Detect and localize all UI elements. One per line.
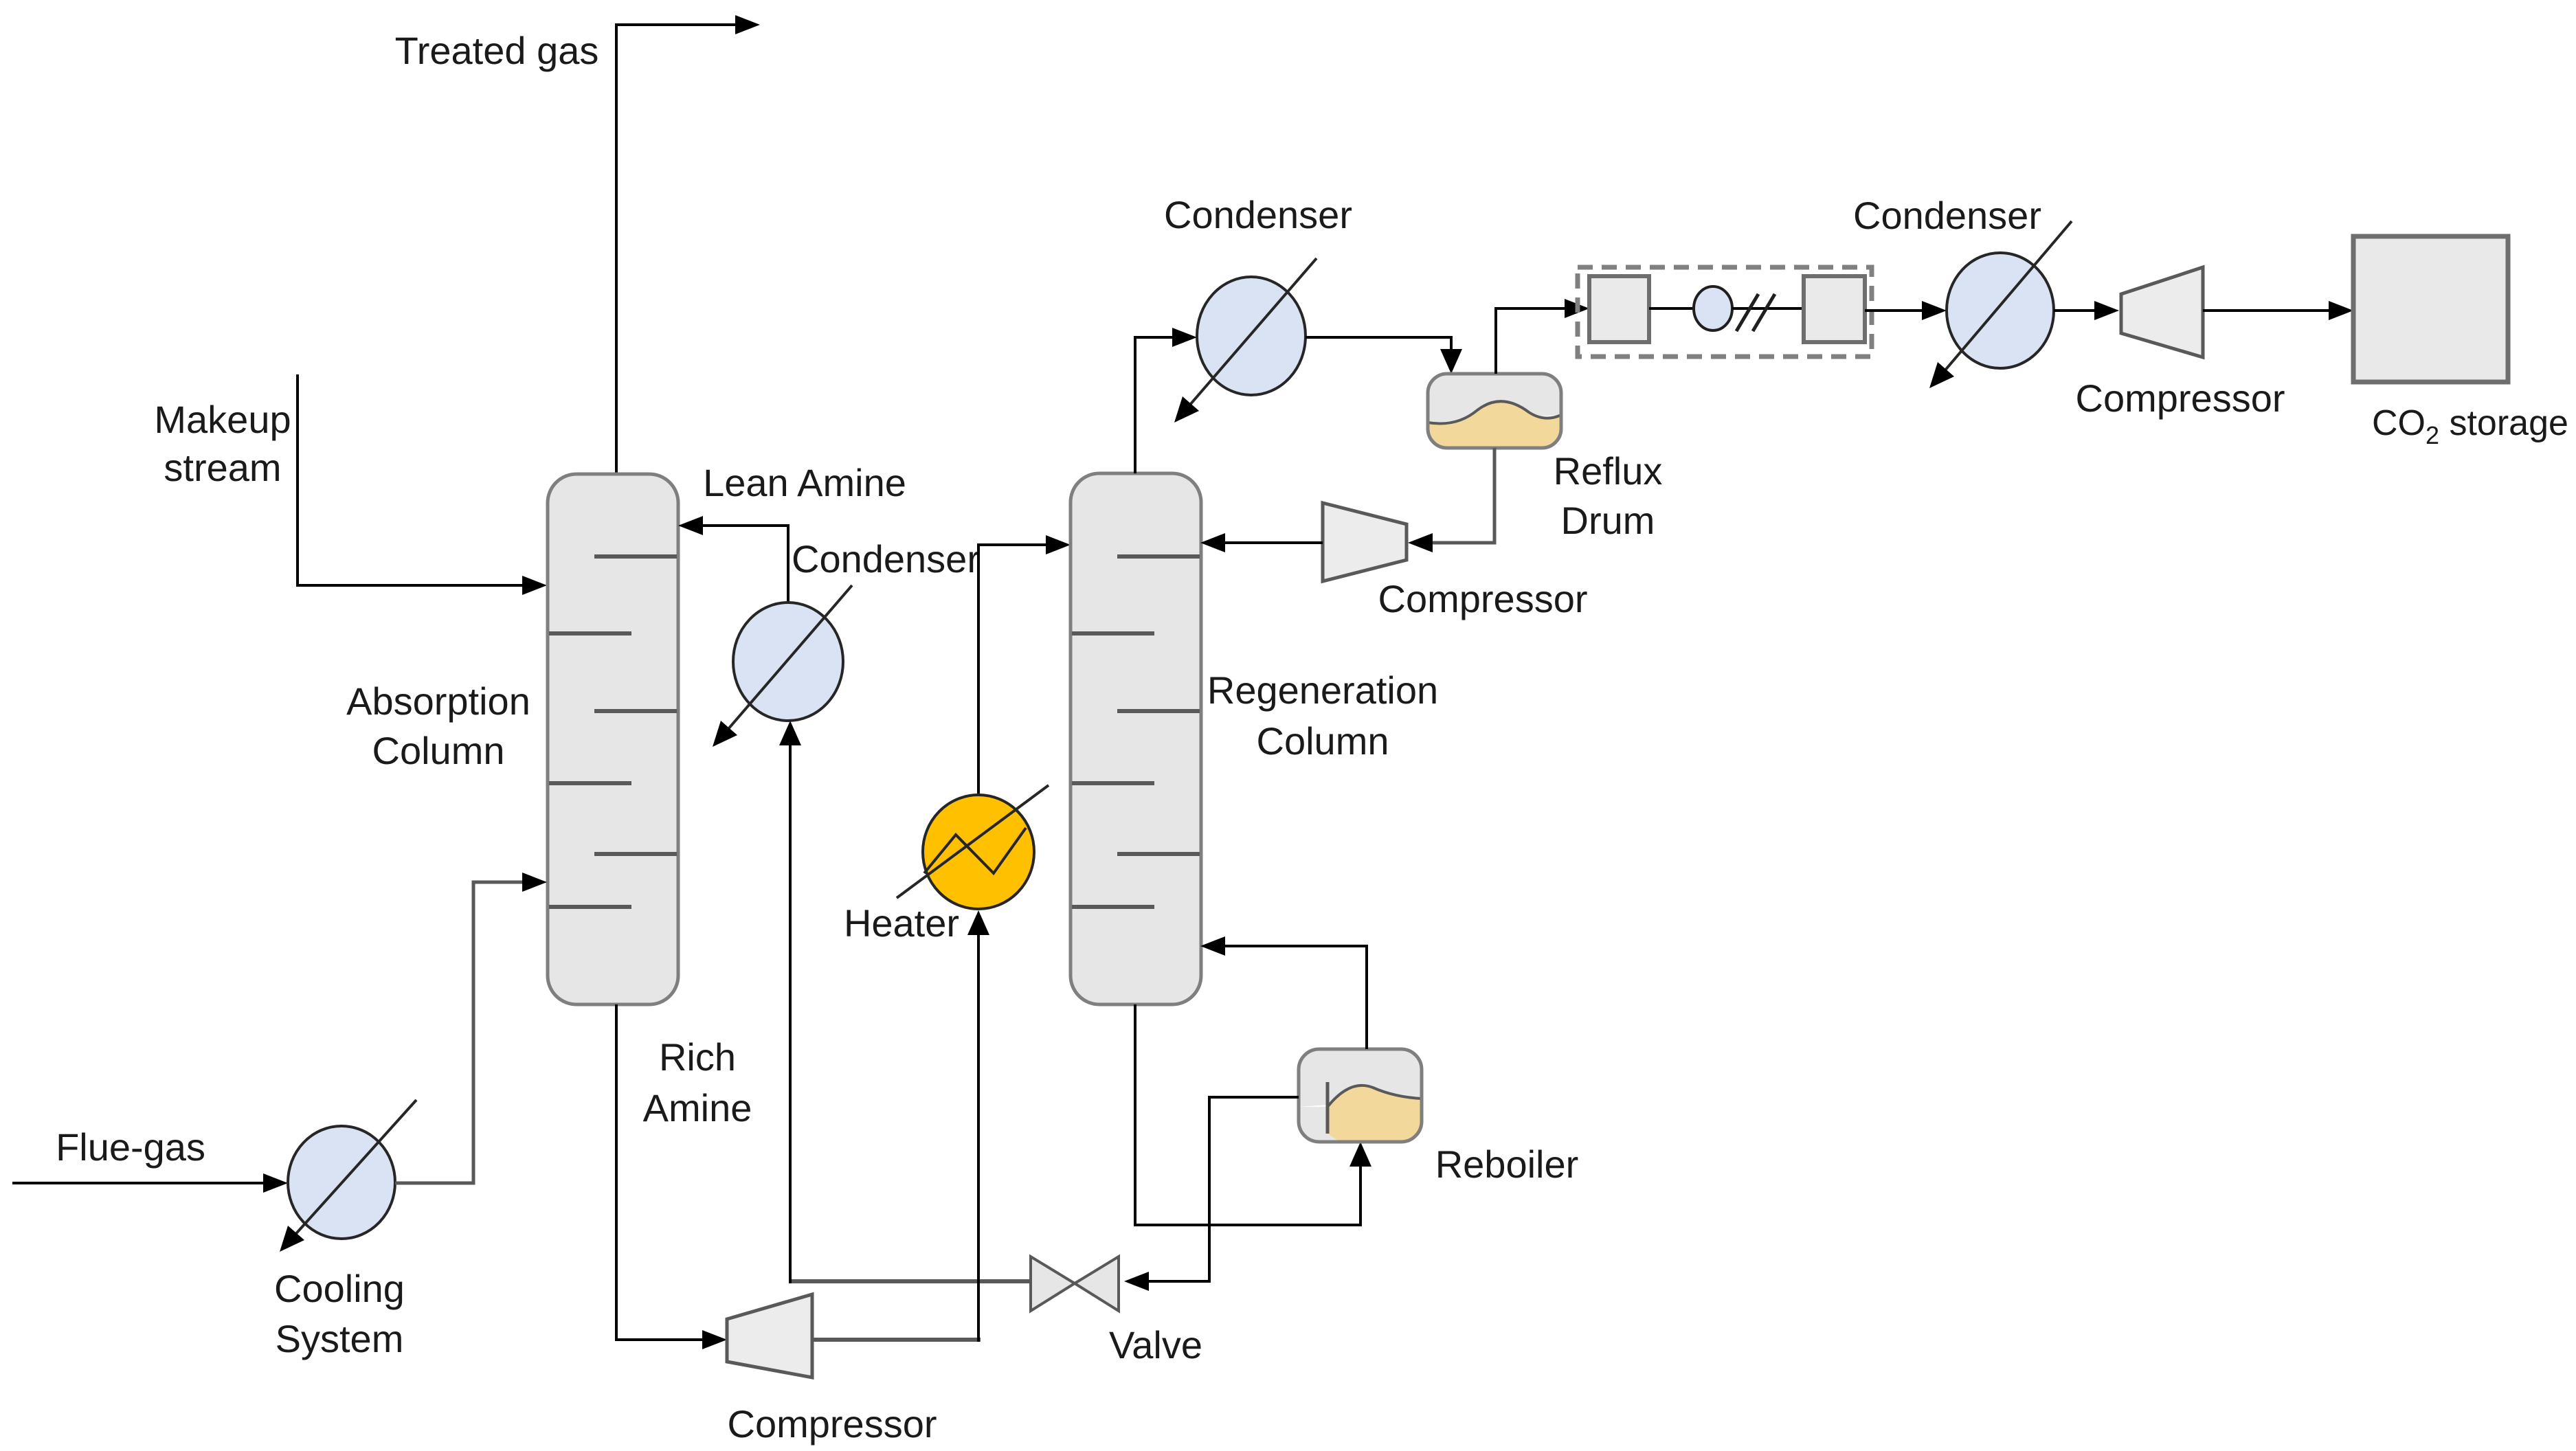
arrow: into first block of train: [1565, 299, 1589, 318]
wire: condenser outlet to reflux drum: [1306, 337, 1451, 349]
label: Reflux Drum: [1554, 449, 1663, 542]
svg-text:Flue-gas: Flue-gas: [56, 1125, 205, 1169]
heat exchanger: final condenser circle: [1936, 221, 2072, 381]
label: Absorption Column: [346, 679, 530, 772]
wire: reboiler vapour return to regeneration column: [1225, 946, 1367, 1049]
wire: riser up to lean amine cooler: [789, 745, 792, 1283]
wire: makeup stream line: [298, 374, 522, 585]
svg-text:Cooling: Cooling: [274, 1267, 405, 1310]
svg-text:Compressor: Compressor: [2076, 376, 2285, 420]
block: CO2 storage: [2353, 236, 2508, 382]
wire: reboiler liquid to valve: [1149, 1097, 1299, 1281]
arrow: flue gas into absorption column: [522, 873, 547, 892]
arrow: condenser utility outlet (down-left): [1174, 396, 1199, 423]
label: Regeneration Column: [1207, 668, 1438, 763]
arrow: flue gas into cooling system: [263, 1173, 288, 1193]
heat exchanger: overhead condenser circle: [1181, 258, 1317, 415]
wire: riser up to heater: [977, 935, 980, 1342]
arrow: into final condenser: [1922, 301, 1947, 320]
svg-text:stream: stream: [164, 446, 281, 489]
arrow: into reflux drum top: [1440, 349, 1462, 374]
svg-text:Regeneration: Regeneration: [1207, 668, 1438, 712]
arrow: overhead vapour into condenser: [1172, 328, 1197, 347]
arrow: vapour return into regeneration column: [1200, 936, 1225, 956]
svg-text:Heater: Heater: [844, 901, 959, 945]
break symbol: double slash on train line: [1736, 294, 1775, 331]
heat exchanger: heater circle: [897, 785, 1049, 909]
heat exchanger: lean amine condenser (cooler) circle: [719, 585, 852, 739]
arrow: final condenser utility outlet (down-left): [1929, 362, 1954, 388]
heat exchanger: cooling system circle: [287, 1100, 416, 1244]
vessel: Reflux Drum: [1428, 374, 1561, 448]
column: Absorption Column vessel: [548, 474, 678, 1004]
arrow: rich amine into regeneration column: [1046, 535, 1071, 554]
wire: valve outlet toward lean amine cooler: [790, 1279, 1031, 1283]
svg-text:Reboiler: Reboiler: [1435, 1143, 1579, 1186]
svg-text:Condenser: Condenser: [1853, 194, 2041, 237]
svg-text:Valve: Valve: [1109, 1323, 1202, 1366]
wire: rich amine line from absorption column bottom: [616, 1004, 702, 1340]
label: Cooling System: [274, 1267, 405, 1360]
arrow: lean amine into valve: [1124, 1272, 1149, 1291]
wire: train unit1 to pump: [1649, 307, 1694, 310]
svg-text:Amine: Amine: [643, 1086, 752, 1129]
svg-text:Compressor: Compressor: [728, 1402, 937, 1446]
wire: compressor outlet toward heater riser: [812, 1338, 981, 1342]
wire: flue gas feed line: [12, 1182, 263, 1184]
wire: reflux drum liquid to compressor: [1433, 448, 1494, 543]
arrow: reflux into regeneration column: [1200, 533, 1225, 552]
wire: pump to train unit 2: [1732, 307, 1804, 310]
arrow: treated gas outlet: [735, 15, 760, 34]
block: train unit 2: [1804, 276, 1865, 342]
pump: small circulation pump in train: [1694, 286, 1732, 330]
dashed box: CO2 compression train boundary: [1578, 267, 1872, 357]
svg-text:CO2 storage: CO2 storage: [2372, 403, 2568, 449]
wire: treated gas line from absorption column top: [616, 25, 735, 474]
svg-text:System: System: [276, 1317, 404, 1360]
arrow: cooling system utility outlet (down-left): [280, 1226, 304, 1252]
vessel: Reboiler: [1299, 1049, 1422, 1142]
arrow: makeup stream into absorption column: [522, 576, 547, 595]
wire: final condenser to CO2 compressor: [2054, 309, 2094, 312]
wire: reflux compressor to regeneration column: [1225, 541, 1323, 544]
column: Regeneration Column vessel: [1071, 473, 1201, 1004]
arrow: reflux into compressor: [1408, 533, 1433, 552]
svg-text:Absorption: Absorption: [346, 679, 530, 723]
label: Rich Amine: [643, 1035, 752, 1129]
compressor: rich amine pump (bottom): [727, 1294, 812, 1377]
wire: cooled flue gas to absorption column: [395, 882, 522, 1183]
block: train unit 1: [1589, 276, 1649, 342]
svg-text:Treated gas: Treated gas: [395, 29, 599, 72]
arrow: cooler utility outlet (down-left): [713, 721, 737, 747]
wire: lean amine return into absorption column: [703, 526, 788, 607]
wire: regeneration column bottoms to reboiler: [1135, 1004, 1360, 1225]
arrow: into heater bottom: [967, 910, 989, 935]
arrow: lean amine into absorption column: [678, 516, 703, 535]
wire: reflux drum vapour to CO2 train: [1496, 308, 1565, 374]
wire: CO2 compressor to storage: [2203, 309, 2329, 312]
svg-text:Condenser: Condenser: [792, 537, 980, 581]
arrow: rich amine into compressor: [702, 1330, 727, 1349]
compressor: CO2 compressor (wide right): [2121, 267, 2203, 357]
label: Makeup stream: [154, 398, 291, 489]
svg-text:Drum: Drum: [1561, 499, 1655, 542]
svg-text:Reflux: Reflux: [1554, 449, 1663, 493]
svg-text:Lean Amine: Lean Amine: [703, 461, 906, 504]
arrow: into cooler bottom: [779, 721, 801, 745]
svg-text:Condenser: Condenser: [1164, 193, 1352, 236]
svg-text:Column: Column: [372, 729, 505, 772]
svg-text:Column: Column: [1257, 719, 1389, 763]
arrow: into CO2 storage: [2329, 301, 2353, 320]
wire: train outlet to final condenser: [1865, 309, 1922, 312]
compressor: reflux compressor (wide left): [1323, 503, 1407, 581]
arrow: bottoms into reboiler: [1349, 1142, 1371, 1167]
svg-text:Rich: Rich: [659, 1035, 736, 1079]
svg-text:Makeup: Makeup: [154, 398, 291, 441]
wire: regeneration column overhead to condenser: [1135, 337, 1172, 473]
arrow: into CO2 compressor: [2094, 301, 2119, 320]
svg-text:Compressor: Compressor: [1378, 577, 1588, 620]
wire: heater outlet to regeneration column: [978, 545, 1046, 795]
valve: letdown valve: [1031, 1257, 1119, 1311]
